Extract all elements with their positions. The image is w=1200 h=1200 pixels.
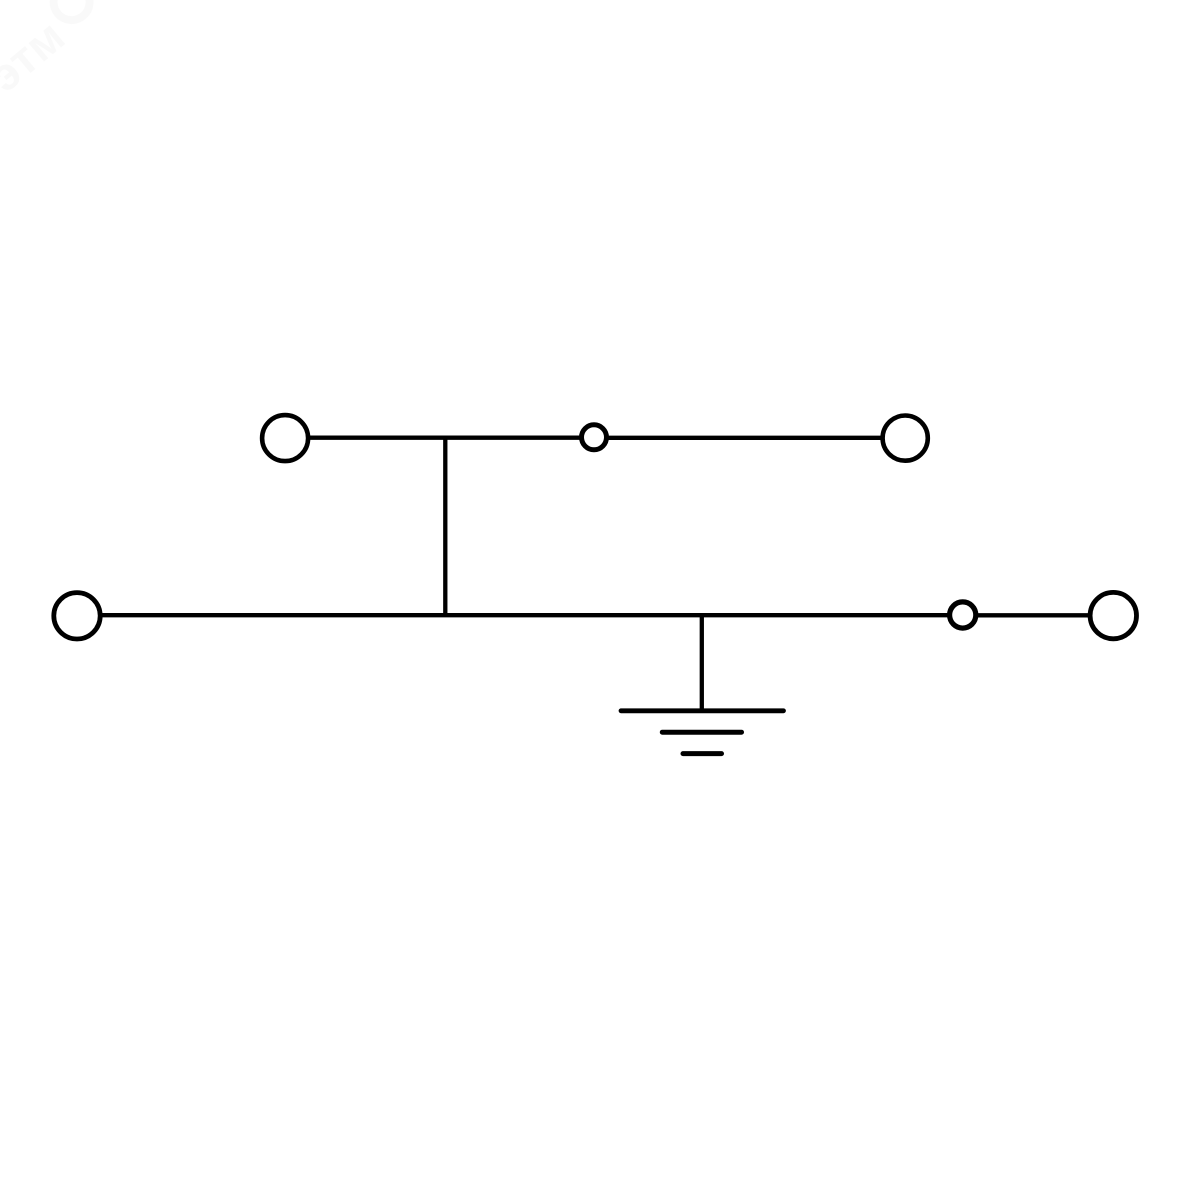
wire: C to small circle F (bottom row long segment): [102, 613, 949, 617]
small circle E (top middle): [582, 425, 607, 450]
watermark (faint ETM logo, top-left): [0, 0, 110, 102]
terminal circle B (top-right): [883, 416, 928, 461]
wire: F to terminal circle D (bottom row right segment): [978, 613, 1090, 617]
terminal circle D (bottom-right): [1090, 592, 1136, 638]
terminal circle A (top-left): [262, 415, 308, 461]
wire: A to small circle E (top row left segment): [308, 436, 581, 440]
ground bar 1 (top, long): [621, 708, 784, 713]
wire: E to terminal circle B (top row right segment): [607, 436, 882, 440]
terminal circle C (bottom-left): [54, 593, 100, 639]
wire: vertical junction from top row to bottom row: [443, 438, 447, 616]
ground bar 2 (middle): [662, 730, 741, 735]
small circle F (bottom right): [950, 602, 976, 628]
ground stem wire: [700, 615, 704, 708]
ground bar 3 (bottom, short): [683, 751, 722, 756]
